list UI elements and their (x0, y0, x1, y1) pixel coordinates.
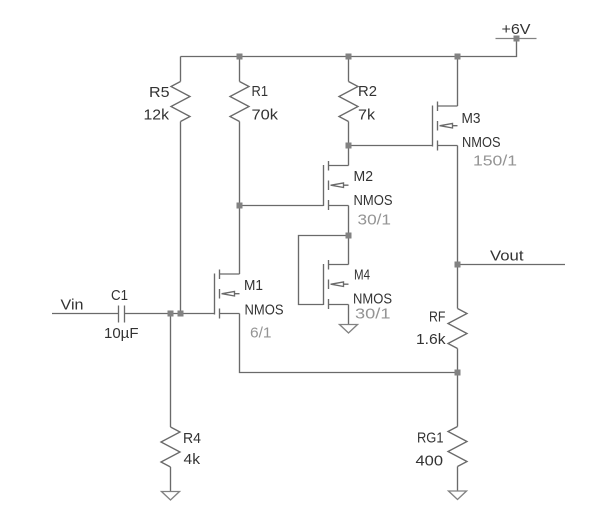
svg-text:M1: M1 (244, 277, 263, 294)
wire M3 gate (349, 145, 433, 147)
node Vout junction (455, 262, 461, 268)
wire Vin input (52, 313, 118, 315)
svg-text:RF: RF (429, 309, 446, 326)
capacitor C1 (119, 306, 125, 323)
wire R5 top lead (180, 57, 182, 82)
svg-text:M2: M2 (354, 168, 374, 185)
resistor R4 (161, 427, 180, 467)
node M2 source/M4 junction (346, 233, 352, 239)
wire RF bottom to RG1 top (457, 349, 459, 427)
svg-text:R1: R1 (252, 83, 269, 100)
wire R5 bottom lead (180, 122, 182, 314)
svg-text:M4: M4 (354, 267, 370, 284)
svg-text:NMOS: NMOS (245, 302, 284, 319)
+6V supply bar (496, 38, 537, 40)
svg-text:10µF: 10µF (104, 325, 139, 342)
svg-text:NMOS: NMOS (354, 192, 393, 209)
wire R4 drop (170, 314, 172, 428)
svg-text:70k: 70k (252, 107, 279, 124)
wire M4 gate loop (299, 236, 349, 305)
wire R2 bottom to M2 drain (348, 122, 350, 166)
resistor R2 (339, 82, 358, 122)
wire M3 source to RF (457, 146, 459, 309)
node Vin/R5 junction (178, 311, 184, 317)
transistor M2 (324, 161, 349, 210)
svg-text:30/1: 30/1 (355, 306, 391, 323)
ground below R4 (162, 492, 180, 501)
transistor M1 (215, 270, 240, 319)
wire M4 source lead (348, 305, 350, 325)
resistor R1 (230, 82, 249, 122)
svg-text:R2: R2 (358, 83, 377, 100)
wire M2 source to M4 drain (348, 206, 350, 265)
svg-text:Vout: Vout (490, 248, 524, 265)
wire R2 top lead (348, 57, 350, 82)
wire R4 bottom lead (170, 467, 172, 492)
node Vin/R4 junction (168, 311, 174, 317)
node R1/M2 gate junction (237, 203, 243, 209)
resistor RG1 (448, 427, 467, 467)
svg-text:7k: 7k (358, 107, 376, 124)
svg-text:1.6k: 1.6k (416, 331, 446, 348)
node RF/RG1 junction (455, 370, 461, 376)
node rail/R2 junction (346, 54, 352, 60)
node +6V square (514, 36, 520, 42)
wire M3 drain (457, 57, 459, 107)
wire R1 top lead (239, 57, 241, 82)
svg-text:4k: 4k (184, 451, 201, 468)
wire C1 to M1 gate (125, 313, 215, 315)
transistor M4 (324, 260, 349, 309)
wire top supply rail (181, 39, 517, 57)
resistor RF (448, 309, 467, 349)
svg-text:150/1: 150/1 (473, 153, 517, 170)
wire feedback M1 source to RF/RG1 node (240, 314, 458, 373)
node rail/M3 junction (455, 54, 461, 60)
svg-text:6/1: 6/1 (250, 325, 272, 342)
svg-text:R5: R5 (149, 84, 170, 101)
transistor M3 (433, 102, 458, 151)
svg-text:30/1: 30/1 (358, 212, 392, 229)
wire M2 gate from R1 node (240, 205, 324, 207)
svg-text:+6V: +6V (502, 21, 531, 38)
svg-text:R4: R4 (183, 430, 201, 447)
svg-text:RG1: RG1 (417, 430, 444, 447)
resistor R5 (171, 82, 190, 122)
ground below RG1 (449, 491, 467, 500)
wire R1 bottom to M1 drain (239, 122, 241, 275)
wire RG1 bottom lead (457, 467, 459, 492)
ground below M4 (340, 325, 358, 334)
svg-text:NMOS: NMOS (462, 134, 501, 151)
svg-text:12k: 12k (144, 107, 170, 124)
svg-text:C1: C1 (111, 287, 128, 304)
node R2/M3 gate junction (346, 143, 352, 149)
svg-text:400: 400 (416, 453, 444, 470)
wire Vout (458, 264, 566, 266)
node rail/R1 junction (237, 54, 243, 60)
svg-text:Vin: Vin (61, 297, 84, 314)
svg-text:M3: M3 (462, 110, 481, 127)
